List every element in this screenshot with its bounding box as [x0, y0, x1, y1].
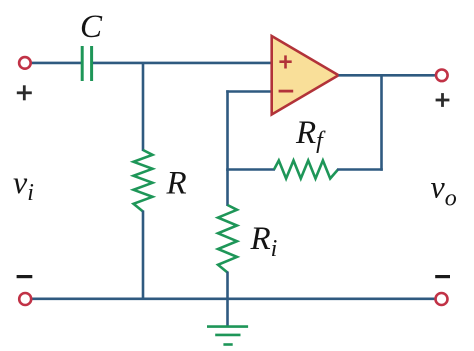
wire: Rf to output vertical	[337, 168, 383, 171]
wire: capacitor to op-amp + input	[93, 62, 272, 65]
polarity - left	[17, 275, 33, 278]
polarity - right	[435, 275, 450, 278]
svg-text:C: C	[80, 9, 103, 45]
wire: op-amp output	[339, 74, 436, 77]
svg-text:vo: vo	[431, 169, 457, 212]
polarity + right	[436, 93, 450, 107]
svg-text:Ri: Ri	[250, 221, 278, 262]
op-amp U1	[272, 36, 339, 115]
polarity + left	[17, 85, 32, 100]
wire: bottom rail	[31, 297, 435, 300]
wire: node A down to resistor R	[142, 63, 145, 151]
op-amp - input mark	[279, 90, 294, 93]
svg-text:vi: vi	[13, 164, 34, 206]
svg-text:R: R	[166, 166, 187, 202]
resistor R	[134, 150, 153, 212]
terminal: input bottom	[19, 293, 31, 305]
terminal: output top	[436, 70, 448, 82]
svg-text:Rf: Rf	[295, 115, 326, 154]
wire: Ri to ground	[226, 272, 229, 327]
wire: resistor R to bottom rail	[142, 211, 145, 299]
capacitor C	[82, 46, 91, 81]
wire: vertical up to output	[380, 74, 383, 171]
wire: input terminal to capacitor	[31, 62, 82, 65]
wire: inverting input horizontal	[226, 90, 271, 93]
op-amp + input mark	[279, 55, 291, 68]
resistor Rf	[274, 161, 338, 179]
wire: vertical from feedback node through Ri	[226, 170, 229, 207]
terminal: output bottom	[436, 293, 448, 305]
terminal: input top	[19, 57, 31, 69]
resistor Ri	[218, 205, 237, 273]
wire: vertical from inverting input to feedback node	[226, 90, 229, 171]
wire: feedback node to Rf	[226, 168, 275, 171]
ground	[207, 327, 248, 345]
